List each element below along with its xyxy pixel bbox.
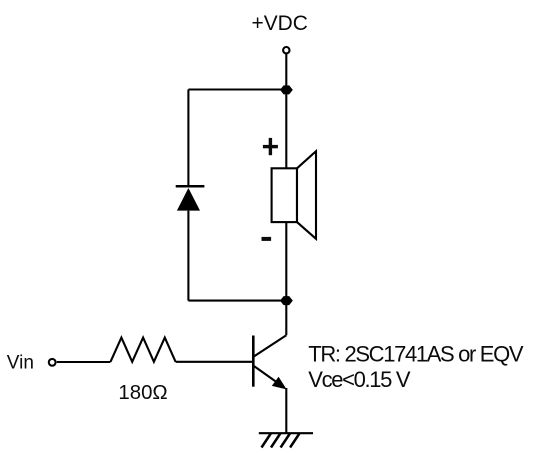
speaker LS1 — [272, 151, 316, 239]
node Vin terminal — [49, 359, 56, 366]
svg-text:Vce<0.15 V: Vce<0.15 V — [308, 367, 411, 392]
svg-text:+VDC: +VDC — [252, 12, 308, 35]
wire +VDC terminal to top junction — [285, 54, 287, 90]
svg-text:TR: 2SC1741AS or EQV: TR: 2SC1741AS or EQV — [308, 342, 524, 367]
node +VDC terminal — [283, 47, 289, 53]
junction bottom node — [280, 296, 293, 305]
junction top node — [280, 85, 293, 94]
ground — [259, 433, 313, 447]
svg-text:Vin: Vin — [7, 353, 34, 374]
wire bottom junction to diode branch (horizontal) — [188, 300, 286, 302]
speaker plus label — [263, 138, 278, 155]
wire diode branch lower vertical — [187, 211, 189, 301]
speaker minus label — [262, 237, 272, 241]
wire base to resistor — [176, 361, 254, 363]
wire top junction to speaker — [285, 90, 287, 169]
wire emitter to ground — [285, 388, 287, 433]
wire Vin terminal to resistor — [57, 361, 111, 363]
svg-text:180Ω: 180Ω — [118, 382, 167, 404]
wire diode branch upper vertical — [187, 90, 189, 187]
diode D1 (flyback, cathode up) — [176, 186, 205, 210]
wire top junction to diode branch (horizontal) — [188, 88, 286, 90]
transistor TR 2SC1741AS (NPN) — [253, 335, 286, 389]
wire bottom junction to collector — [285, 301, 287, 336]
wire speaker to bottom junction — [285, 222, 287, 301]
resistor R 180ohm — [111, 338, 176, 362]
